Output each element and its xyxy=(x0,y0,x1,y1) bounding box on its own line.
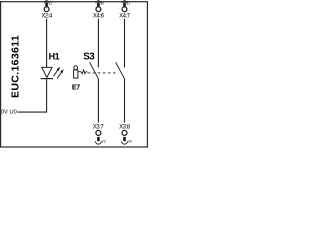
pushbutton actuator E7 xyxy=(72,66,80,92)
svg-text:X4:7: X4:7 xyxy=(119,13,131,19)
connector socket arc X4:6 xyxy=(96,1,101,3)
svg-text:X4:6: X4:6 xyxy=(93,13,105,19)
actuator head circle xyxy=(74,66,78,70)
svg-text:S3: S3 xyxy=(83,51,95,62)
svg-text:23: 23 xyxy=(102,140,106,144)
svg-text:30: 30 xyxy=(100,2,104,6)
switch contact S3 pole 1 xyxy=(90,62,99,79)
switch contact S3 pole 2 xyxy=(116,62,125,79)
svg-text:12: 12 xyxy=(48,2,52,6)
connector socket arc X2:4 xyxy=(44,1,49,3)
terminal X3:7 xyxy=(93,125,106,145)
terminal circle X4:6 xyxy=(96,7,101,12)
svg-text:X3:7: X3:7 xyxy=(93,125,105,131)
connector socket arc X4:7 xyxy=(122,1,127,3)
terminal X4:6 xyxy=(93,1,105,20)
wire contact2 to X3:8 xyxy=(124,79,126,123)
wire X4:7 to contact xyxy=(124,19,126,68)
terminal circle X3:7 xyxy=(96,130,101,135)
terminal X4:7 xyxy=(119,1,131,20)
terminal X3:8 xyxy=(119,125,132,145)
mechanical link with detent zigzag xyxy=(78,70,87,74)
connector pin X3:7 xyxy=(97,137,100,141)
svg-text:EUC.163611: EUC.163611 xyxy=(10,35,22,98)
actuator body xyxy=(74,70,78,78)
connector socket arc X3:8 xyxy=(122,141,128,144)
connector socket arc X3:7 xyxy=(95,141,101,144)
connector pin X4:7 xyxy=(123,3,126,7)
svg-text:X2:4: X2:4 xyxy=(41,13,53,19)
LED cathode bar xyxy=(41,78,53,80)
svg-text:0V U0: 0V U0 xyxy=(1,110,17,116)
svg-text:E7: E7 xyxy=(72,85,80,92)
border frame xyxy=(1,2,148,147)
LED triangle xyxy=(42,67,52,77)
connector pin X2:4 xyxy=(45,3,48,7)
connector pin X4:6 xyxy=(97,3,100,7)
terminal circle X3:8 xyxy=(122,130,127,135)
wire X4:6 to contact xyxy=(97,19,99,68)
dashed linkage line xyxy=(88,72,119,74)
LED H1 xyxy=(41,67,63,78)
LED arrow 1 xyxy=(54,70,58,76)
LED arrow 2 xyxy=(57,72,61,78)
terminal X2:4 xyxy=(41,1,53,20)
wire contact1 to X3:7 xyxy=(97,79,99,123)
svg-text:H1: H1 xyxy=(49,52,60,62)
terminal circle X2:4 xyxy=(44,7,49,12)
connector pin X3:8 xyxy=(123,137,126,141)
svg-text:24: 24 xyxy=(128,140,132,144)
svg-text:31: 31 xyxy=(126,2,130,6)
svg-text:X3:8: X3:8 xyxy=(119,125,131,131)
wire X2:4 to LED H1 xyxy=(46,19,48,68)
wire LED to 0V rail xyxy=(18,79,47,112)
terminal circle X4:7 xyxy=(122,7,127,12)
